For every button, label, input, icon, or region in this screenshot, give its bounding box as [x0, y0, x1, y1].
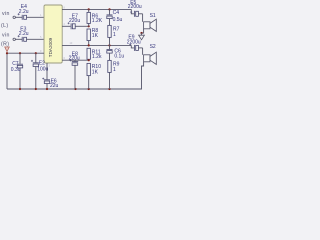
svg-text:1: 1	[113, 32, 116, 38]
svg-text:(L): (L)	[1, 23, 9, 29]
wire OUT2 rail	[62, 44, 131, 46]
svg-text:1K: 1K	[92, 33, 99, 39]
junction C6 top on OUT2	[108, 44, 110, 46]
resistor R11 1.2k	[87, 48, 102, 60]
speaker S1	[142, 13, 157, 33]
svg-text:1K: 1K	[92, 69, 99, 75]
junction E2 top	[35, 52, 37, 54]
svg-text:2.2u: 2.2u	[19, 31, 29, 37]
svg-text:1: 1	[113, 67, 116, 73]
svg-text:vin: vin	[2, 33, 10, 39]
wire vin R input to IC pin	[16, 38, 45, 40]
op-amp U1 TDA2009	[44, 5, 62, 63]
resistor R6 1.2K	[87, 9, 103, 26]
resistor R10 1K	[87, 63, 101, 89]
svg-text:0.5u: 0.5u	[113, 17, 123, 23]
svg-text:1.2k: 1.2k	[92, 54, 102, 60]
wire supply down to ground rail	[6, 53, 8, 89]
wire OUT1 rail	[62, 8, 131, 10]
speaker S2	[141, 44, 156, 89]
capacitor E3 2.2u	[18, 27, 29, 42]
junction E6 bottom on ground rail	[46, 88, 48, 90]
junction C7 top	[19, 52, 21, 54]
power +V flag (red arrow)	[5, 47, 10, 52]
junction R8 bottom / R11 top on OUT2	[88, 44, 90, 46]
junction E8 bottom on ground rail	[74, 88, 76, 90]
svg-text:1.2K: 1.2K	[92, 18, 103, 24]
svg-text:TDA2009: TDA2009	[48, 37, 53, 57]
junction FB2 / R11 / R10	[88, 59, 90, 61]
junction C7 bottom on ground rail	[19, 88, 21, 90]
wire supply rail to IC	[7, 52, 44, 54]
svg-text:S2: S2	[150, 44, 156, 50]
input terminal VIN R	[1, 33, 15, 48]
capacitor E6 22u (from IC bottom pin)	[42, 63, 58, 89]
junction FB1 / R6 / R8	[88, 25, 90, 27]
ground (arrow) under S1	[139, 33, 145, 40]
capacitor E7 220u (series in FB1)	[68, 14, 81, 30]
junction R9 bottom on ground rail	[108, 88, 110, 90]
junction E2 bottom on ground rail	[35, 88, 37, 90]
capacitor E4 2.2u	[18, 4, 29, 20]
capacitor E9 2200u (OUT2 to S2)	[127, 34, 143, 51]
svg-text:(R): (R)	[1, 41, 9, 47]
svg-text:2200u: 2200u	[127, 39, 141, 45]
capacitor E8 220u (FB2 to ground)	[69, 51, 80, 89]
capacitor C7 0.3u	[11, 53, 23, 89]
junction supply node	[6, 52, 8, 54]
svg-text:0.1u: 0.1u	[114, 53, 124, 59]
svg-text:0.3u: 0.3u	[11, 67, 21, 73]
svg-text:S1: S1	[150, 13, 156, 19]
junction R10 bottom on ground rail	[88, 88, 90, 90]
capacitor E5 2200u (OUT1 to S1)	[128, 0, 143, 17]
junction S1 return	[140, 32, 142, 34]
svg-text:C4: C4	[113, 10, 120, 16]
svg-text:2.2u: 2.2u	[19, 9, 29, 15]
wire FB1 from IC	[62, 25, 89, 27]
resistor R8 1K	[87, 28, 99, 46]
svg-text:2200u: 2200u	[128, 4, 142, 10]
capacitor C4 0.1u	[107, 9, 123, 25]
capacitor E2 100u	[31, 53, 49, 89]
svg-text:220u: 220u	[69, 18, 80, 24]
input terminal VIN L	[1, 11, 15, 29]
svg-text:vin: vin	[2, 11, 10, 17]
wire vin L input to IC pin	[16, 16, 45, 18]
svg-text:220u: 220u	[69, 55, 80, 61]
wire FB2 from IC	[62, 59, 89, 61]
svg-text:22u: 22u	[50, 83, 59, 89]
capacitor C6 0.1u	[107, 45, 125, 60]
junction C4 top on OUT1	[108, 8, 110, 10]
wire ground rail bottom	[7, 88, 142, 90]
junction R6 top on OUT1	[88, 8, 90, 10]
resistor R7 1	[108, 25, 120, 45]
resistor R9 1	[108, 60, 120, 89]
